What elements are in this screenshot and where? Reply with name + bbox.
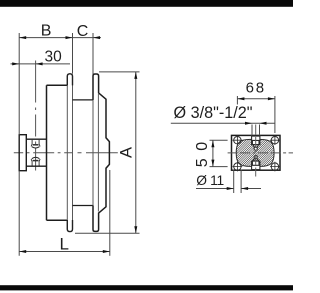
corner hole TR [270, 135, 280, 145]
bottom screw taper [253, 159, 259, 162]
thread ext lines [252, 125, 260, 135]
top slot wall ticks [252, 135, 260, 136]
50 dim line [212, 140, 214, 166]
big disc (largest diameter, rounded slab) [67, 74, 72, 232]
svg-text:L: L [60, 235, 69, 254]
svg-text:68: 68 [246, 80, 266, 97]
top slot [252, 136, 260, 144]
disc2 (middle disc) outline [47, 85, 68, 220]
flange plate rectangle [232, 135, 281, 170]
corner hole BR [270, 162, 280, 172]
svg-text:Ø 11: Ø 11 [196, 173, 224, 188]
top clamp screw head [252, 140, 259, 144]
horizontal centerline left view [14, 152, 118, 154]
corner hole TL [233, 135, 243, 145]
top screw taper [253, 145, 259, 148]
svg-text:B: B [41, 23, 52, 40]
svg-text:30: 30 [45, 48, 63, 65]
arrow L left [19, 250, 26, 253]
arrow 68 right [268, 97, 275, 100]
bottom clamp screw head [252, 161, 259, 165]
flange left face [92, 74, 94, 231]
dia11 ext lines [234, 170, 241, 194]
dim line 30 [11, 63, 71, 65]
ext line left (B/30/L) [18, 33, 20, 256]
arrow B right / C left [66, 36, 73, 39]
bottom screw tip circle [254, 155, 257, 158]
dim line B [19, 37, 72, 39]
arrow A bottom [134, 226, 137, 233]
top black bar [0, 0, 293, 7]
arrow L right [103, 250, 110, 253]
big disc dark caps [67, 74, 72, 232]
dim line C tail [73, 37, 102, 39]
arrow dia11 left [227, 187, 234, 190]
68 dim line [237, 98, 275, 100]
left end plate (washer) [19, 135, 26, 171]
L dim line [19, 251, 110, 253]
svg-text:Ø 3/8"-1/2": Ø 3/8"-1/2" [174, 104, 253, 122]
svg-text:A: A [118, 147, 136, 158]
arrow thread left [245, 122, 252, 125]
flange outline [93, 74, 109, 231]
set screw axis centerline [35, 61, 37, 171]
arrow A top [134, 72, 137, 79]
ext line x=93 for C [92, 33, 94, 74]
arrow 50 top [211, 140, 214, 147]
A top ext line [99, 71, 140, 73]
ext line x=72.5 for B/C [72, 33, 74, 74]
dia11 dim line with tails [196, 188, 261, 190]
svg-text:C: C [77, 23, 89, 40]
groove bottom edges [73, 100, 94, 206]
arrow C right [93, 36, 100, 39]
top screw tip circle [254, 147, 257, 150]
arrow 50 bottom [211, 160, 214, 167]
hatched coupling sleeve [236, 139, 274, 166]
set screw upper [31, 140, 40, 148]
arrow 68 left [237, 97, 244, 100]
A bottom ext line [75, 232, 140, 234]
flange rim inner edge line [97, 94, 99, 212]
corner hole BL [233, 162, 243, 172]
horizontal centerline right view [228, 152, 299, 154]
thread leader line [171, 122, 275, 124]
arrow B left [19, 36, 26, 39]
arrow thread right [260, 122, 267, 125]
A dim line [135, 72, 137, 233]
arrow 30 right [36, 62, 43, 65]
bottom black bar [0, 285, 293, 290]
68 ext lines [237, 96, 275, 133]
bottom slot [252, 161, 260, 169]
vertical centerline right view [255, 125, 257, 177]
arrow dia11 right [241, 187, 248, 190]
arrow 30 left [12, 62, 19, 65]
50 ext lines [210, 140, 228, 166]
svg-text:50: 50 [194, 134, 211, 167]
L right ext line [109, 170, 111, 256]
set screw lower [31, 157, 40, 165]
hub body [26, 139, 46, 166]
